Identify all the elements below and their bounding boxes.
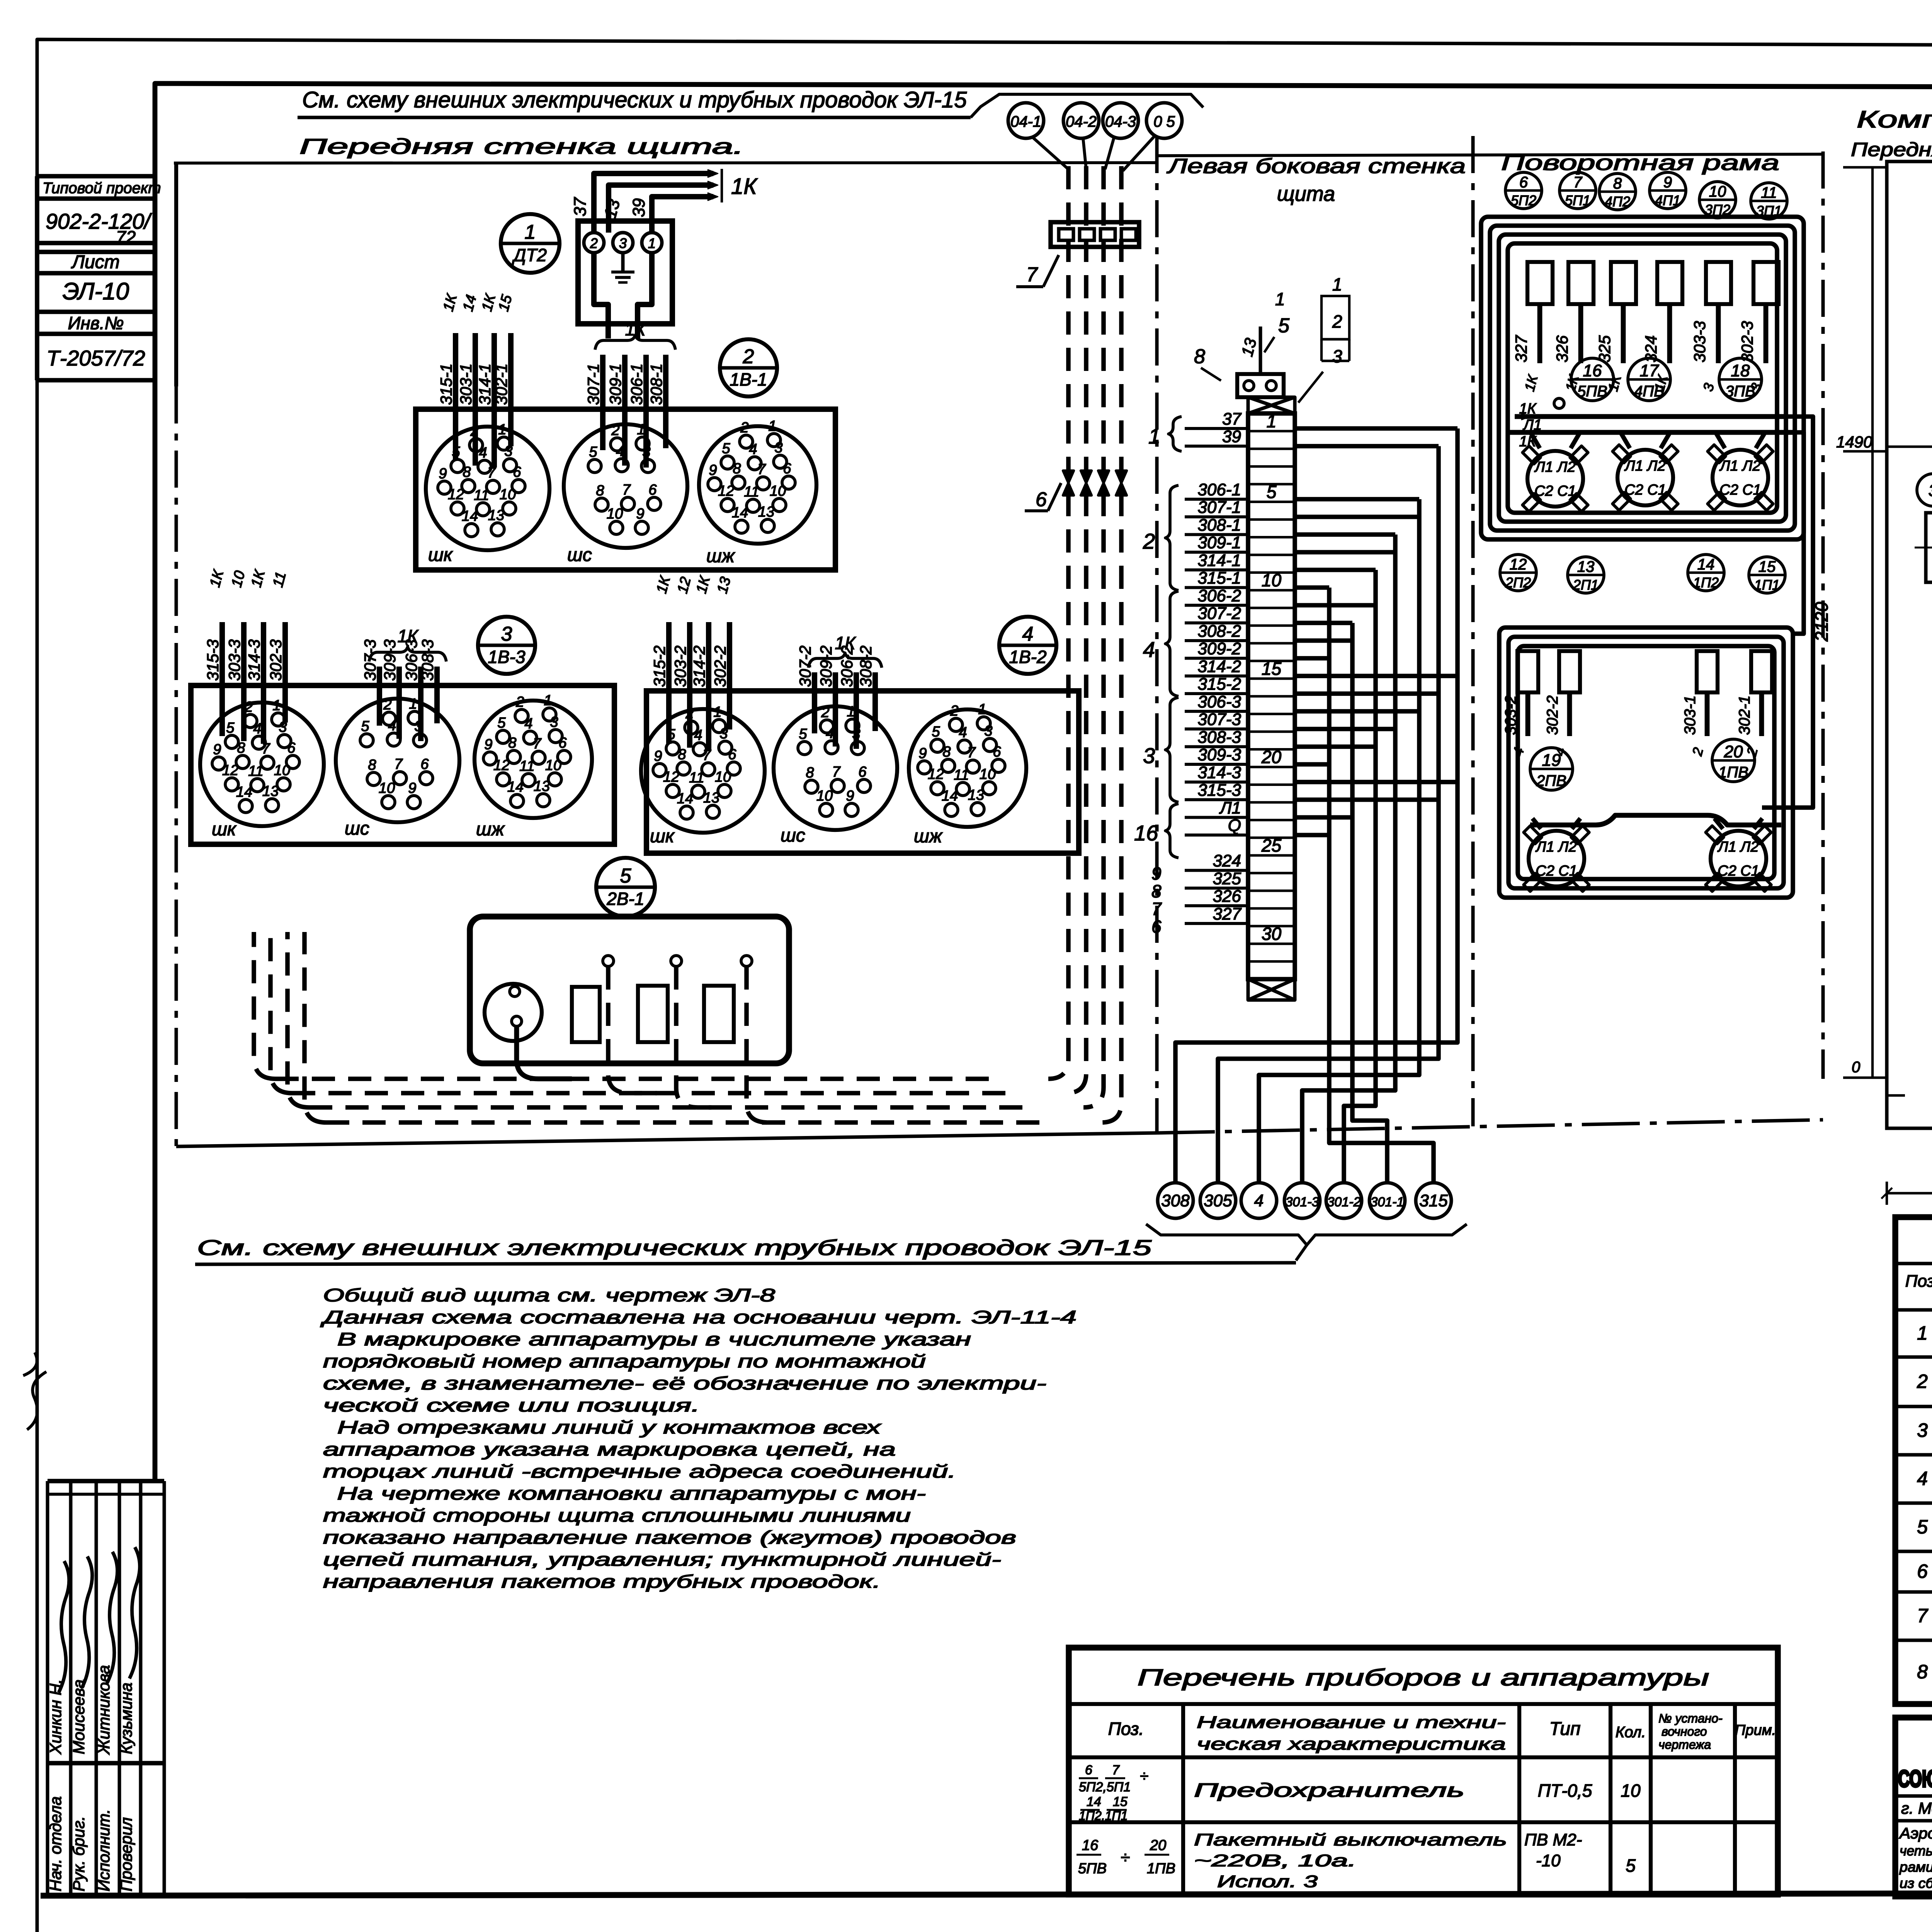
svg-text:314-3: 314-3 [245, 639, 263, 681]
svg-text:3: 3 [619, 235, 627, 251]
svg-text:1: 1 [768, 418, 776, 434]
svg-text:1490: 1490 [1836, 433, 1872, 451]
connector ШС of panel 2 [564, 424, 687, 548]
svg-text:301-2: 301-2 [1327, 1195, 1361, 1209]
svg-text:-10: -10 [1536, 1851, 1561, 1870]
svg-text:7: 7 [1026, 264, 1038, 286]
svg-text:ДТ2: ДТ2 [512, 245, 547, 265]
svg-text:04-1: 04-1 [1010, 113, 1041, 130]
designator circle 14/1П2 [1688, 554, 1724, 591]
connector ШЖ of panel 4 [909, 709, 1026, 827]
svg-text:ПВ М2-: ПВ М2- [1524, 1830, 1582, 1849]
designator circle 13/2П1 [1568, 557, 1604, 593]
svg-text:показано направление пакетов (: показано направление пакетов (жгутов) пр… [323, 1527, 1016, 1548]
svg-text:Аэротенки- смесители: Аэротенки- смесители [1899, 1825, 1932, 1842]
svg-text:9: 9 [439, 466, 447, 482]
svg-text:схеме, в знаменателе- её обозн: схеме, в знаменателе- её обозначение по … [323, 1373, 1046, 1393]
svg-text:0: 0 [1852, 1059, 1860, 1076]
svg-text:12: 12 [718, 483, 734, 499]
pin 1 of U1 [642, 233, 662, 253]
svg-text:39: 39 [629, 198, 648, 217]
designator circle 9/4П1 [1650, 172, 1686, 209]
svg-text:14: 14 [1087, 1794, 1101, 1809]
group brace 2 [1165, 485, 1179, 590]
svg-text:8: 8 [1194, 345, 1205, 368]
specification table [1895, 1217, 1932, 1704]
svg-text:5: 5 [722, 440, 730, 457]
svg-text:315-1: 315-1 [1197, 569, 1241, 588]
svg-text:4: 4 [959, 724, 967, 741]
svg-text:Испол. 3: Испол. 3 [1217, 1872, 1318, 1891]
svg-text:327: 327 [1512, 335, 1530, 362]
svg-text:315: 315 [1419, 1191, 1448, 1210]
svg-text:Лист: Лист [71, 252, 120, 272]
wire from meter of box5 [517, 1027, 572, 1079]
svg-text:306-1: 306-1 [1197, 480, 1241, 499]
svg-text:С2 С1: С2 С1 [1536, 863, 1577, 879]
svg-text:г. Москва: г. Москва [1901, 1799, 1932, 1817]
svg-text:Над отрезками линий у контакто: Над отрезками линий у контактов всех [323, 1417, 881, 1437]
svg-text:20: 20 [1261, 747, 1282, 767]
svg-text:Поз.: Поз. [1108, 1719, 1144, 1739]
net circle 315 [1416, 1183, 1451, 1218]
svg-text:8: 8 [806, 765, 814, 781]
svg-text:С2 С1: С2 С1 [1718, 863, 1759, 879]
svg-text:315-3: 315-3 [204, 639, 222, 681]
svg-text:5: 5 [1917, 1516, 1928, 1538]
svg-text:301-3: 301-3 [1286, 1195, 1319, 1209]
svg-text:Инв.№: Инв.№ [68, 313, 124, 333]
svg-text:13: 13 [262, 783, 279, 799]
designator circle 2/1В-1 [720, 339, 777, 396]
net circle 4 [1241, 1183, 1277, 1218]
svg-text:6: 6 [513, 464, 521, 480]
svg-text:9: 9 [1663, 174, 1672, 191]
wire 314-3 [261, 622, 266, 744]
svg-text:6: 6 [648, 482, 657, 498]
tube line from terminal 3 of box5 [747, 966, 784, 1122]
wire 308-2 [872, 672, 878, 731]
svg-text:13: 13 [488, 507, 504, 524]
svg-text:10: 10 [274, 762, 290, 779]
lamp НЛ3 [1713, 450, 1768, 505]
net circle 308 [1158, 1183, 1193, 1218]
svg-text:2П2: 2П2 [1505, 575, 1531, 590]
svg-text:314-1: 314-1 [476, 364, 494, 405]
cable mark 1К arrows [708, 170, 718, 177]
svg-text:307-1: 307-1 [584, 364, 602, 405]
svg-text:5: 5 [620, 865, 632, 887]
svg-text:10: 10 [1262, 570, 1282, 590]
switch S2 in box 5 [638, 986, 668, 1042]
svg-text:6: 6 [858, 764, 867, 780]
svg-text:9: 9 [408, 780, 416, 796]
svg-text:327: 327 [1213, 905, 1242, 923]
svg-text:5: 5 [932, 724, 940, 740]
svg-text:8: 8 [368, 757, 376, 773]
fuse 302-3 [1753, 262, 1779, 304]
svg-text:С2 С1: С2 С1 [1624, 482, 1666, 498]
svg-text:306-2: 306-2 [1197, 586, 1241, 605]
svg-text:2: 2 [590, 235, 598, 251]
svg-text:12: 12 [448, 486, 464, 503]
svg-text:13: 13 [758, 504, 774, 520]
svg-text:308-2: 308-2 [1197, 622, 1241, 641]
svg-text:Q: Q [1228, 816, 1241, 835]
wire 307-2 [812, 672, 817, 733]
svg-text:6: 6 [728, 747, 736, 763]
svg-text:315-2: 315-2 [650, 646, 668, 687]
svg-text:аппаратов указана маркировка ц: аппаратов указана маркировка цепей, на [323, 1439, 896, 1459]
svg-text:5: 5 [589, 444, 597, 460]
svg-text:8: 8 [1917, 1661, 1928, 1683]
pipe circle 05 [1146, 103, 1182, 138]
svg-text:направления пакетов трубных пр: направления пакетов трубных проводок. [323, 1571, 881, 1592]
svg-text:6: 6 [1917, 1561, 1928, 1582]
wire 315-2 [666, 622, 672, 744]
svg-text:302-1: 302-1 [1736, 696, 1753, 735]
svg-text:1: 1 [1267, 411, 1277, 431]
margin scribble marks [23, 1352, 46, 1430]
group brace 16 [1165, 804, 1179, 858]
wire 309-3 [396, 667, 402, 739]
svg-text:39: 39 [1222, 427, 1241, 446]
svg-text:14: 14 [236, 784, 252, 800]
svg-text:2: 2 [740, 420, 748, 436]
svg-text:7: 7 [533, 736, 542, 752]
svg-text:3: 3 [1929, 481, 1932, 500]
divider rama [1471, 136, 1475, 1126]
svg-text:6: 6 [1519, 174, 1528, 191]
svg-text:1: 1 [498, 422, 506, 438]
svg-text:6: 6 [783, 461, 791, 477]
svg-text:302-2: 302-2 [1544, 696, 1561, 735]
svg-text:324: 324 [1213, 852, 1241, 871]
tube line from terminal 2 of box5 [676, 966, 719, 1107]
svg-text:8: 8 [596, 483, 604, 499]
svg-text:8: 8 [463, 464, 471, 480]
svg-text:÷: ÷ [1140, 1768, 1148, 1785]
svg-text:301-1: 301-1 [1371, 1195, 1404, 1209]
svg-text:Предохранитель: Предохранитель [1194, 1779, 1464, 1801]
svg-text:13: 13 [1577, 558, 1595, 575]
svg-text:11: 11 [519, 758, 534, 774]
terminal circles above switches [603, 956, 614, 966]
connector ШЖ of panel 3 [474, 701, 592, 818]
svg-text:314-1: 314-1 [1197, 551, 1241, 570]
svg-text:305: 305 [1204, 1191, 1232, 1210]
svg-text:14: 14 [942, 788, 958, 804]
svg-text:20: 20 [1150, 1837, 1166, 1854]
svg-text:шж: шж [476, 819, 505, 840]
svg-text:10: 10 [545, 757, 561, 774]
svg-text:15: 15 [1262, 658, 1282, 679]
svg-text:2: 2 [743, 345, 754, 368]
svg-text:10: 10 [500, 486, 516, 503]
svg-text:302-3: 302-3 [1738, 321, 1756, 362]
svg-text:302-3: 302-3 [267, 639, 285, 681]
stamp column boxes [37, 174, 155, 179]
svg-text:2: 2 [383, 697, 391, 713]
svg-text:16: 16 [1082, 1837, 1099, 1854]
svg-text:309-1: 309-1 [606, 364, 624, 405]
1490 tick in layout [1887, 446, 1932, 448]
wire trunk to circle 4 [1295, 497, 1419, 502]
svg-text:308-2: 308-2 [857, 646, 875, 687]
svg-text:15: 15 [1759, 558, 1776, 575]
wires inside U1 to bottom [594, 253, 608, 338]
brace under net circles [1146, 1224, 1467, 1245]
svg-text:ЭЛ-10: ЭЛ-10 [63, 278, 129, 305]
designator circle 10/3П2 [1699, 182, 1736, 218]
connector ШК of panel 4 [641, 709, 765, 833]
connector panel box 3 [191, 685, 614, 844]
svg-text:4: 4 [253, 721, 261, 737]
svg-text:11: 11 [689, 770, 704, 786]
svg-text:10: 10 [379, 780, 395, 796]
svg-text:11: 11 [248, 763, 263, 779]
connector panel box 4 [646, 691, 1079, 853]
svg-text:На чертеже компановки аппарату: На чертеже компановки аппаратуры с мон- [323, 1483, 926, 1503]
svg-text:7: 7 [1573, 174, 1583, 191]
fuse 327 [1527, 262, 1553, 304]
svg-text:314-2: 314-2 [690, 646, 708, 687]
svg-text:2: 2 [950, 703, 958, 719]
designator circle 7/5П1 [1560, 172, 1596, 209]
svg-text:314-3: 314-3 [1197, 763, 1241, 782]
connector ШЖ of panel 2 [699, 426, 816, 544]
svg-text:ческая характеристика: ческая характеристика [1197, 1735, 1506, 1753]
net circle 301-1 [1369, 1183, 1405, 1218]
svg-text:1: 1 [1275, 289, 1285, 309]
wire 308-3 [434, 667, 440, 723]
rama cross wires to right [1793, 432, 1804, 634]
svg-text:С2 С1: С2 С1 [1719, 482, 1761, 498]
fuse 324 [1657, 262, 1682, 304]
svg-text:шс: шс [781, 825, 805, 846]
svg-text:Нач. отдела: Нач. отдела [46, 1796, 65, 1891]
svg-text:2: 2 [1332, 311, 1342, 332]
device box 5 2В-1 [470, 917, 789, 1063]
svg-text:4: 4 [1143, 637, 1155, 662]
lamp feed diagonals lower [1532, 818, 1541, 829]
svg-text:5П1: 5П1 [1565, 192, 1590, 208]
svg-text:5: 5 [497, 715, 506, 731]
terminal strip РЗ-32 [1248, 413, 1295, 979]
connector ШК of panel 3 [200, 702, 324, 826]
svg-text:309-2: 309-2 [1197, 639, 1241, 658]
designator circle 11/3П1 [1751, 183, 1787, 219]
svg-text:4ПВ: 4ПВ [1634, 383, 1664, 400]
svg-text:7: 7 [967, 745, 976, 761]
group brace 4 [1165, 591, 1179, 696]
svg-text:4: 4 [1254, 1191, 1264, 1210]
svg-text:1ПВ: 1ПВ [1147, 1861, 1175, 1877]
svg-text:13: 13 [534, 778, 550, 794]
svg-text:303-1: 303-1 [1682, 696, 1699, 735]
svg-text:3: 3 [550, 714, 558, 730]
svg-text:7: 7 [832, 764, 841, 780]
svg-text:902-2-120/: 902-2-120/ [46, 209, 152, 233]
svg-text:№ устано-: № устано- [1658, 1711, 1723, 1725]
svg-text:2В-1: 2В-1 [606, 889, 644, 909]
svg-text:Кузьмина: Кузьмина [117, 1682, 135, 1754]
wire 303-2 [687, 622, 692, 748]
net circle 305 [1200, 1183, 1236, 1218]
lamp НЛ2 [1617, 450, 1673, 505]
strip bottom cross cell [1248, 979, 1295, 1000]
wire 315-1 [453, 333, 458, 460]
pipe circle 04-3 [1103, 103, 1138, 138]
svg-text:10: 10 [715, 769, 731, 785]
svg-text:2120: 2120 [1811, 602, 1832, 642]
svg-text:1П1: 1П1 [1754, 577, 1780, 593]
svg-text:5ПВ: 5ПВ [1577, 383, 1607, 400]
svg-text:1П2: 1П2 [1693, 575, 1719, 590]
svg-text:5ПВ: 5ПВ [1078, 1861, 1107, 1877]
svg-text:5П2: 5П2 [1511, 192, 1536, 208]
svg-text:307-1: 307-1 [1197, 498, 1241, 517]
cable 1К brace over wires to ШС2 [595, 335, 675, 350]
wire 314-2 [706, 622, 711, 750]
svg-text:Л1 Л2: Л1 Л2 [1535, 839, 1577, 855]
svg-text:0 5: 0 5 [1153, 113, 1175, 130]
svg-text:6: 6 [1085, 1763, 1092, 1777]
svg-text:303-3: 303-3 [225, 639, 243, 681]
svg-text:7: 7 [1112, 1763, 1120, 1777]
svg-text:1В-1: 1В-1 [730, 369, 767, 389]
wire trunk to circle 308 [1295, 426, 1458, 431]
svg-text:6: 6 [287, 740, 296, 756]
designator circle 17/4ПВ [1628, 358, 1670, 401]
svg-text:9: 9 [213, 742, 221, 758]
svg-text:4: 4 [694, 727, 702, 743]
svg-text:2: 2 [1143, 529, 1155, 553]
svg-text:308-3: 308-3 [1197, 728, 1241, 747]
svg-text:шк: шк [212, 819, 237, 840]
wire 306-2 [854, 672, 859, 749]
svg-text:1К: 1К [731, 174, 758, 199]
designator circle 4/1В-2 [999, 617, 1056, 674]
wire 302-1 [508, 333, 514, 446]
svg-text:Моисеева: Моисеева [70, 1679, 88, 1754]
svg-text:шс: шс [567, 545, 592, 565]
svg-text:10: 10 [770, 483, 786, 499]
designator circle 16/5ПВ [1571, 358, 1614, 401]
left zero mark layout [1887, 1094, 1905, 1097]
svg-text:Наименование и техни-: Наименование и техни- [1197, 1713, 1506, 1732]
switch S1 in box 5 [572, 987, 600, 1042]
svg-text:1П2,1П1: 1П2,1П1 [1079, 1809, 1128, 1823]
svg-text:5: 5 [226, 720, 235, 736]
svg-text:Перечень приборов и аппар: Перечень приборов и аппаратуры [1138, 1665, 1709, 1690]
meter circle inside box 5 [485, 984, 542, 1041]
net circle 301-3 [1284, 1183, 1320, 1218]
svg-text:6: 6 [420, 756, 429, 772]
svg-text:309-3: 309-3 [381, 639, 399, 681]
wire trunk to circle 301-2 [1295, 568, 1376, 572]
svg-text:315-1: 315-1 [437, 364, 455, 405]
svg-text:11: 11 [1761, 184, 1777, 201]
svg-text:торцах линий -встречные адреса: торцах линий -встречные адреса соединени… [323, 1461, 956, 1481]
svg-text:2ПВ: 2ПВ [1536, 772, 1566, 789]
svg-text:3: 3 [1143, 743, 1155, 768]
svg-text:Исполнит.: Исполнит. [95, 1809, 113, 1891]
wire 13 stub on strip top [1259, 327, 1262, 374]
dimension line 2120 [1871, 167, 1874, 1078]
svg-text:9: 9 [918, 745, 927, 762]
wire 13 from pin3 to 1К [609, 185, 713, 233]
svg-text:рами коридора 9×5,2×120м: рами коридора 9×5,2×120м [1899, 1859, 1932, 1875]
svg-text:5: 5 [361, 718, 369, 735]
fuse 303-3 [1706, 262, 1731, 304]
svg-text:Хинкин Н.: Хинкин Н. [46, 1679, 65, 1755]
svg-text:308-1: 308-1 [1197, 515, 1241, 534]
ground symbol [621, 253, 625, 271]
svg-text:из сборного железобетона: из сборного железобетона [1900, 1875, 1932, 1891]
svg-text:6: 6 [1036, 488, 1047, 511]
svg-text:1К: 1К [625, 319, 647, 339]
svg-text:10: 10 [1621, 1781, 1641, 1801]
fuse 303-1 [1697, 651, 1718, 692]
group brace 3 [1165, 697, 1179, 802]
svg-text:12: 12 [663, 769, 679, 785]
svg-text:Типовой проект: Типовой проект [43, 180, 161, 197]
svg-text:1: 1 [1917, 1322, 1928, 1344]
svg-text:С2 С1: С2 С1 [1534, 483, 1576, 499]
designator circle 5/2В-1 [596, 858, 655, 917]
svg-text:17: 17 [1640, 361, 1659, 380]
wire 303-1 [473, 333, 478, 466]
svg-text:~220В, 10а.: ~220В, 10а. [1194, 1851, 1356, 1870]
svg-text:11: 11 [954, 767, 969, 783]
layout big rectangle [1887, 162, 1932, 1128]
svg-text:6: 6 [1151, 917, 1162, 937]
group brace 1 [1168, 417, 1182, 451]
svg-text:1: 1 [272, 697, 281, 714]
wire trunk to circle 315 [1295, 585, 1329, 590]
svg-text:Кол.: Кол. [1616, 1724, 1646, 1741]
svg-text:В маркировке аппаратуры в числ: В маркировке аппаратуры в числителе указ… [323, 1329, 971, 1349]
svg-text:÷: ÷ [1121, 1848, 1130, 1867]
svg-text:7: 7 [702, 747, 711, 764]
strip top cross cell [1248, 397, 1295, 413]
instrument list table [1069, 1648, 1778, 1895]
fuse 325 [1611, 262, 1636, 304]
svg-text:14: 14 [507, 779, 524, 795]
svg-text:9: 9 [1151, 864, 1162, 884]
wire 314-1 [492, 333, 497, 468]
svg-text:Л1 Л2: Л1 Л2 [1719, 458, 1761, 474]
pipe bundle left tails [254, 932, 276, 1079]
node circle [1554, 398, 1564, 408]
bottom border of side wall area [1157, 1120, 1823, 1133]
rama upper wire loops [1481, 217, 1804, 539]
svg-text:306-3: 306-3 [402, 639, 420, 681]
wire 306-1 [643, 355, 649, 468]
divider rama right [1821, 151, 1825, 1079]
svg-text:Пакетный выключатель: Пакетный выключатель [1194, 1830, 1507, 1849]
svg-text:10: 10 [607, 506, 623, 522]
connector ШС of panel 4 [774, 706, 897, 830]
svg-text:3ПВ: 3ПВ [1725, 383, 1755, 400]
svg-text:303-2: 303-2 [1502, 696, 1519, 735]
svg-text:7: 7 [1917, 1605, 1929, 1627]
svg-text:Передняя стенка щита.: Передняя стенка щита. [299, 134, 744, 158]
svg-text:порядковый номер аппаратуры по: порядковый номер аппаратуры по монтажной [323, 1351, 926, 1371]
wire 306-3 [418, 667, 423, 741]
svg-text:8: 8 [678, 747, 686, 763]
